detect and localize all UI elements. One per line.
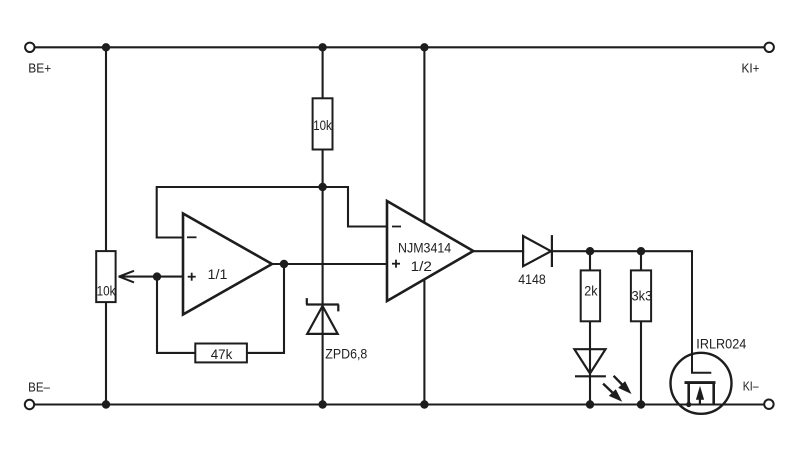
wire 3k3 resistor to bottom rail xyxy=(640,321,642,404)
svg-text:BE–: BE– xyxy=(28,381,50,395)
diode D1 cathode bar xyxy=(551,235,553,267)
wire op-amp U1A output to op-amp U1B plus input xyxy=(272,263,387,265)
transistor Q1 channel bar xyxy=(685,381,716,384)
op-amp U1B minus sign xyxy=(392,226,401,228)
svg-text:1/1: 1/1 xyxy=(208,266,228,282)
wire 2k resistor through LED to bottom rail xyxy=(589,321,591,404)
potentiometer P1 10k body xyxy=(96,251,134,302)
junction bottom rail at supply line xyxy=(420,400,428,408)
transistor Q1 IRLR024 MOSFET circle xyxy=(671,353,732,414)
op-amp U1B triangle NJM3414 1/2 xyxy=(387,201,473,301)
svg-text:4148: 4148 xyxy=(518,272,546,287)
wire reference node to op-amp U1B minus input xyxy=(323,187,387,227)
svg-text:IRLR024: IRLR024 xyxy=(696,336,746,351)
junction bottom rail at 3k3 xyxy=(637,400,645,408)
op-amp U1A minus sign xyxy=(187,236,197,238)
junction reference node xyxy=(318,183,326,191)
junction bottom rail at potentiometer xyxy=(102,400,110,408)
op-amp U1A plus sign xyxy=(188,276,196,278)
op-amp U1A triangle 1/1 xyxy=(183,214,272,315)
zener triangle xyxy=(307,306,338,334)
wire node to 2k resistor xyxy=(589,251,591,270)
terminal BE- xyxy=(25,381,50,410)
wire 10k resistor through zener to bottom rail xyxy=(322,150,324,405)
terminal KI- xyxy=(743,379,774,409)
junction 3k3 top node xyxy=(637,247,645,255)
junction top rail at potentiometer xyxy=(102,43,110,51)
wire top rail BE+ to KI+ xyxy=(35,46,765,48)
svg-text:47k: 47k xyxy=(211,347,233,362)
junction top rail at supply line xyxy=(420,43,428,51)
LED emission arrow 1 xyxy=(614,376,632,394)
resistor R5 3k3 body xyxy=(631,270,652,321)
transistor Q1 source junction dot xyxy=(686,402,691,407)
transistor Q1 left leg xyxy=(687,383,690,405)
wire reference node to op-amp U1A minus input xyxy=(157,187,323,238)
wire node to 3k3 resistor xyxy=(640,251,642,270)
transistor Q1 substrate arrow xyxy=(696,386,704,405)
wire top rail to 10k resistor R2 xyxy=(322,47,324,98)
svg-text:1/2: 1/2 xyxy=(411,258,433,274)
terminal KI+ xyxy=(742,43,774,76)
junction top rail at 10k xyxy=(318,43,326,51)
junction wiper node xyxy=(153,272,161,280)
wire supply line through op-amp U1B from top rail to bottom rail xyxy=(423,47,425,404)
zener diode ZD1 ZPD6,8 xyxy=(306,298,339,334)
junction bottom rail at LED xyxy=(586,400,594,408)
svg-text:BE+: BE+ xyxy=(28,62,51,76)
resistor R3 47k body xyxy=(195,344,247,363)
wire diode D1 cathode to gate corner xyxy=(552,250,692,252)
junction 2k top node xyxy=(586,247,594,255)
zener cathode bar xyxy=(306,303,339,305)
wire potentiometer bottom to bottom rail xyxy=(105,302,107,404)
wire bottom rail BE- to KI- xyxy=(34,404,764,406)
resistor R2 10k body xyxy=(313,98,333,149)
junction bottom rail at zener xyxy=(318,400,326,408)
transistor Q1 gate wire xyxy=(692,251,711,373)
wire 47k resistor to op-amp U1A output node xyxy=(247,264,284,353)
svg-text:KI–: KI– xyxy=(743,379,759,393)
svg-text:10k: 10k xyxy=(313,118,332,133)
junction op-amp U1A output node xyxy=(280,260,288,268)
zener right tick xyxy=(337,305,339,312)
op-amp U1B plus sign xyxy=(392,263,400,265)
diode D1 4148 xyxy=(523,235,552,267)
svg-text:3k3: 3k3 xyxy=(632,288,653,303)
potentiometer wiper arrow xyxy=(119,271,134,277)
terminal BE+ xyxy=(25,43,51,76)
LED emission arrow 2 xyxy=(603,384,622,402)
wire op-amp U1B output to diode D1 xyxy=(473,250,523,252)
wire vertical from top rail to potentiometer xyxy=(105,47,107,251)
svg-text:10k: 10k xyxy=(97,283,116,298)
svg-text:KI+: KI+ xyxy=(742,61,760,75)
resistor R4 2k body xyxy=(581,270,600,321)
LED D2 xyxy=(574,349,606,376)
wire wiper node down to 47k resistor xyxy=(157,277,195,353)
wire wiper node to op-amp U1A plus input xyxy=(120,276,184,278)
LED cathode bar xyxy=(575,375,606,377)
zener left tick xyxy=(306,298,308,304)
transistor Q1 right leg xyxy=(712,383,715,405)
svg-text:NJM3414: NJM3414 xyxy=(398,240,451,256)
svg-text:2k: 2k xyxy=(584,283,598,298)
svg-text:ZPD6,8: ZPD6,8 xyxy=(325,346,367,361)
